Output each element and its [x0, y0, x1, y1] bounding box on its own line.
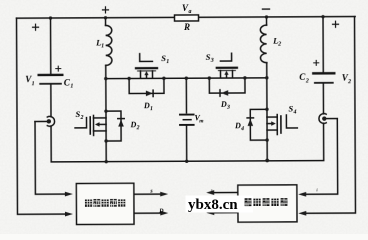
svg-text:D: D	[143, 101, 150, 110]
svg-text:2: 2	[305, 78, 309, 84]
svg-text:ybx8.cn: ybx8.cn	[188, 197, 238, 213]
svg-text:D: D	[158, 208, 164, 214]
svg-text:D: D	[220, 100, 227, 109]
svg-text:4: 4	[240, 126, 244, 132]
svg-text:1: 1	[150, 106, 153, 112]
svg-text:a: a	[188, 9, 191, 15]
svg-text:4: 4	[292, 109, 296, 115]
svg-text:2: 2	[277, 42, 281, 48]
svg-text:2: 2	[79, 115, 83, 121]
svg-text:3: 3	[210, 58, 214, 64]
svg-text:3: 3	[226, 105, 230, 111]
svg-text:2: 2	[347, 79, 351, 85]
svg-text:D: D	[234, 121, 241, 130]
svg-text:m: m	[199, 118, 204, 124]
svg-text:1: 1	[101, 43, 104, 49]
svg-text:s: s	[210, 187, 213, 192]
svg-text:1: 1	[166, 59, 169, 65]
svg-text:2: 2	[136, 125, 140, 131]
svg-text:R: R	[183, 22, 190, 32]
svg-text:D: D	[130, 120, 137, 129]
svg-text:1: 1	[70, 84, 73, 90]
svg-text:1: 1	[32, 81, 35, 87]
